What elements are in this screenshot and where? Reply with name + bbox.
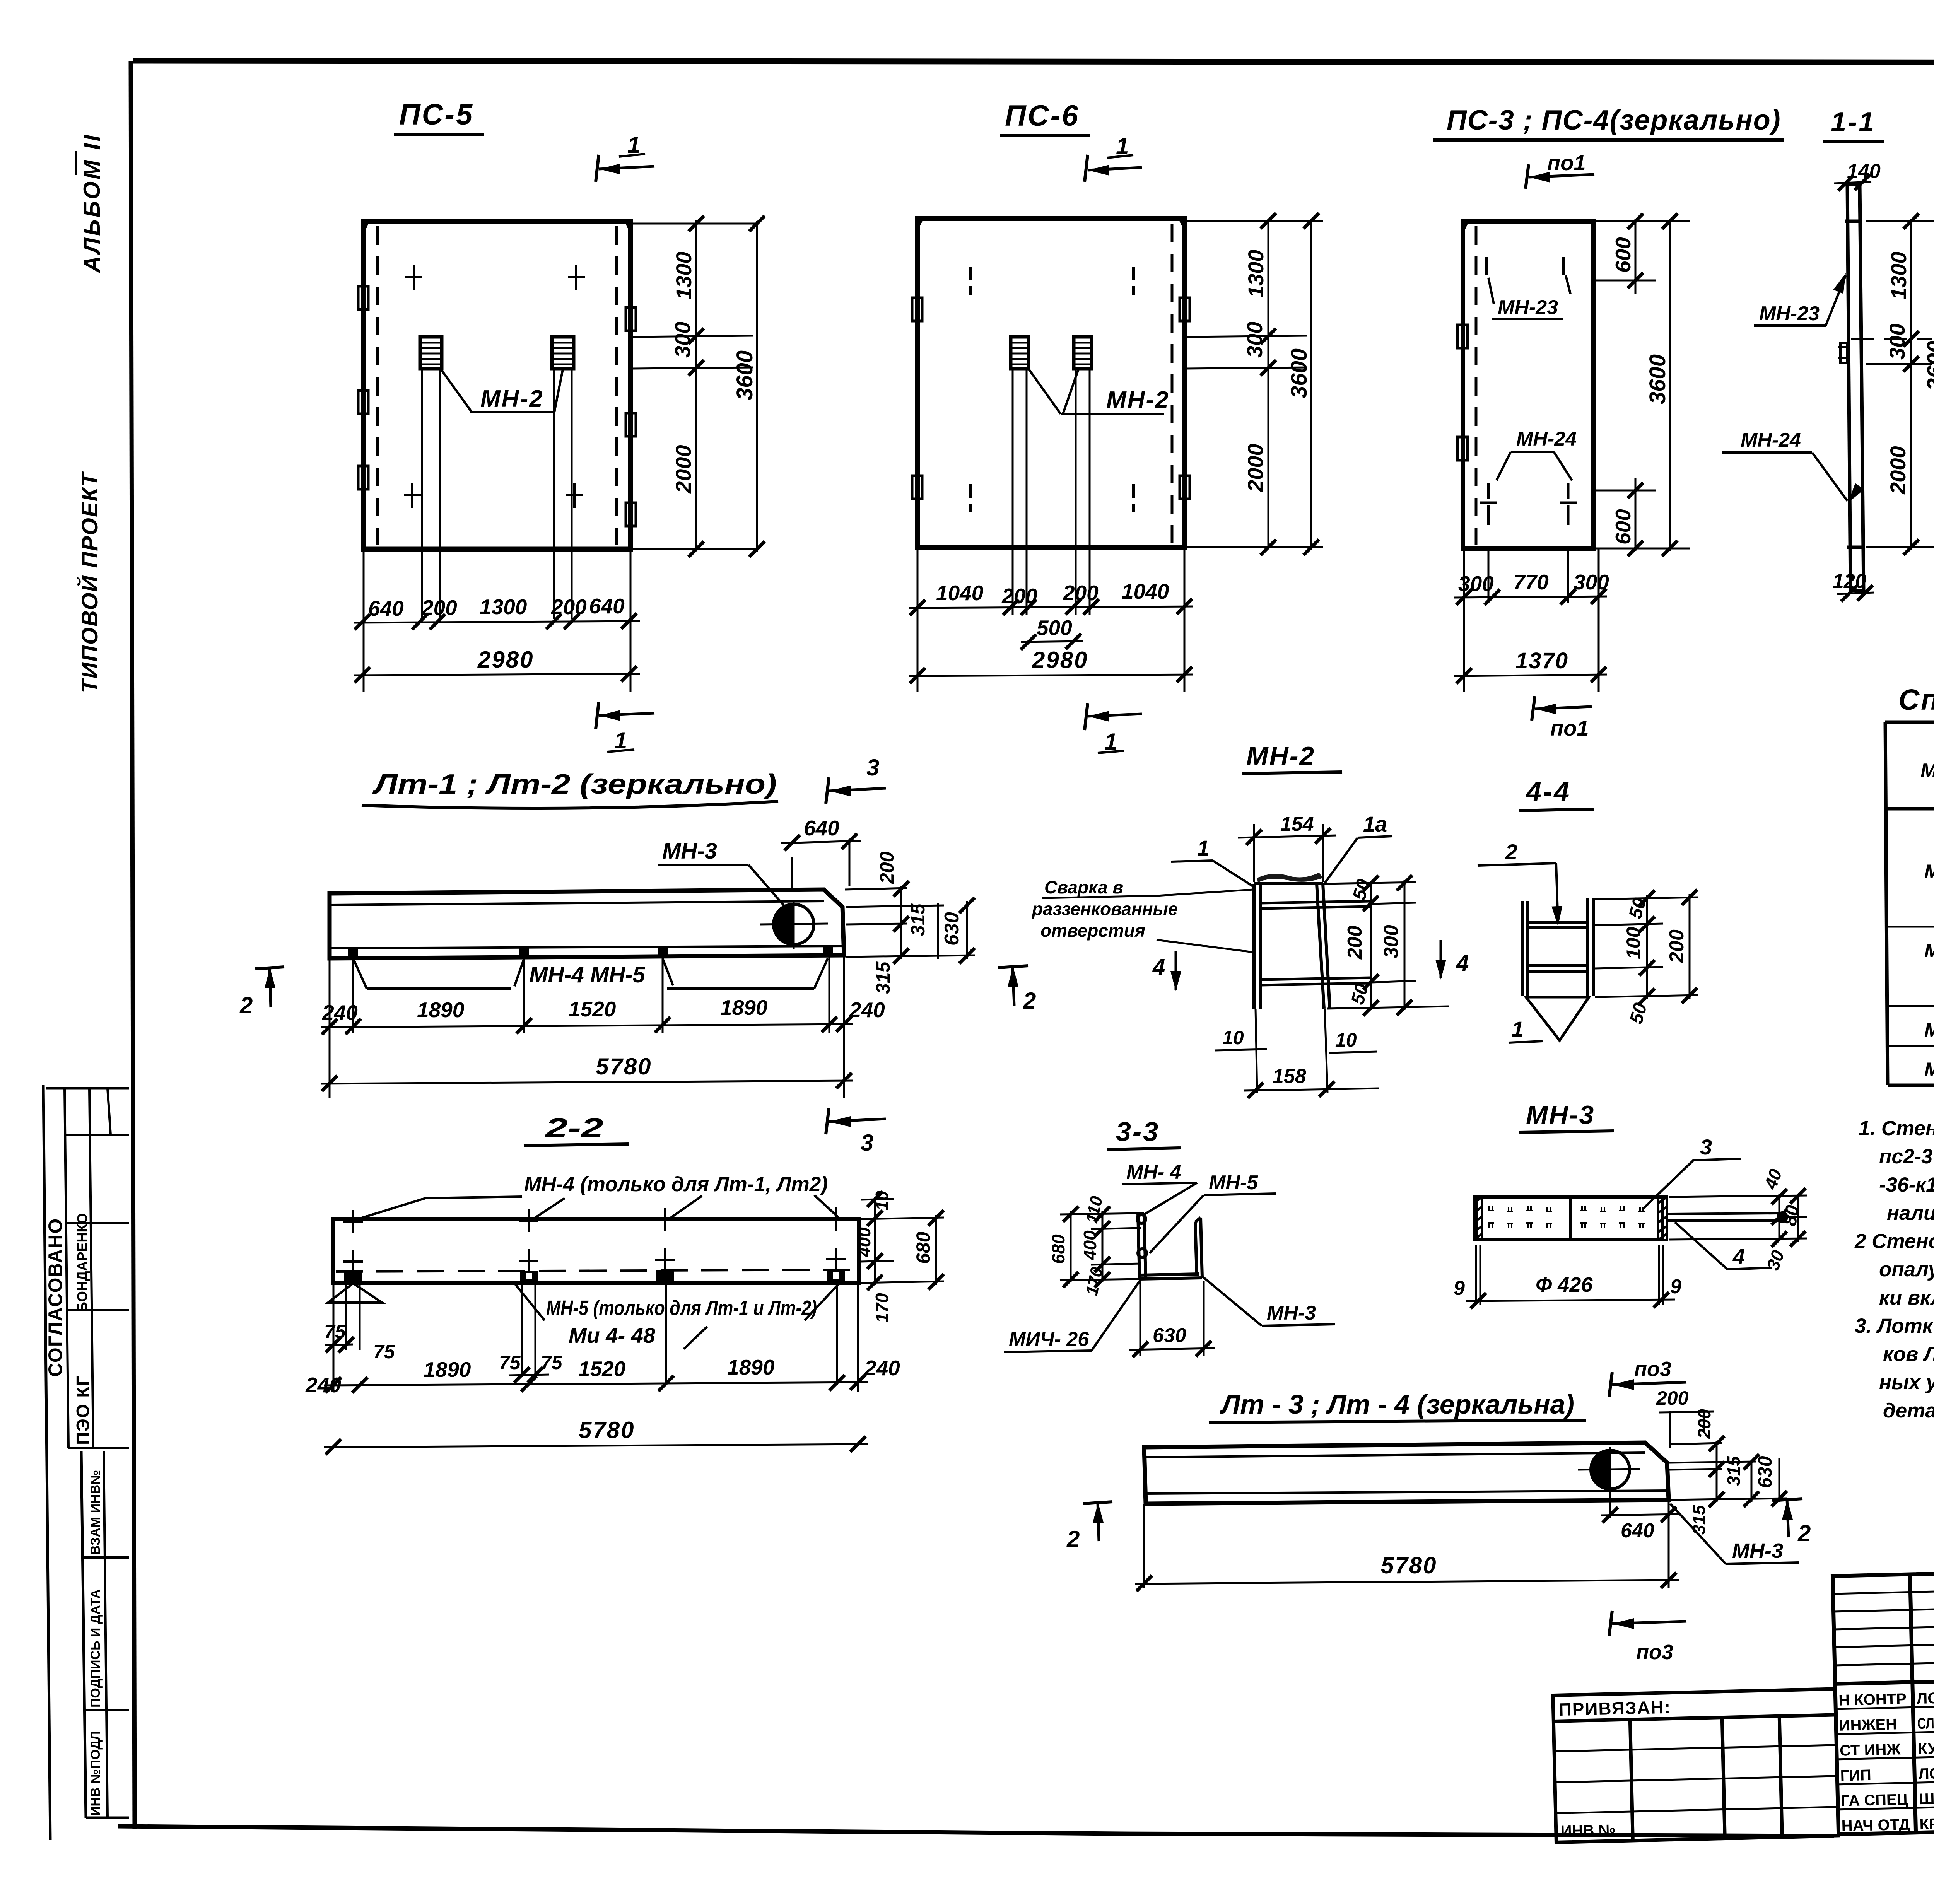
svg-text:4-4: 4-4 xyxy=(1525,777,1571,808)
part Z-profile xyxy=(1137,1213,1202,1279)
svg-text:640: 640 xyxy=(368,596,404,620)
main outer box xyxy=(1833,1557,1934,1834)
part: flanges and web xyxy=(1522,898,1594,996)
svg-text:деталей.: деталей. xyxy=(1883,1399,1934,1422)
svg-text:640: 640 xyxy=(1621,1520,1654,1542)
svg-text:240: 240 xyxy=(305,1373,341,1397)
svg-text:ИНЖЕН: ИНЖЕН xyxy=(1839,1716,1897,1734)
svg-text:по1: по1 xyxy=(1550,716,1589,740)
svg-text:Марка: Марка xyxy=(1920,760,1934,782)
svg-text:2: 2 xyxy=(1066,1526,1080,1552)
section mark 1 (top) xyxy=(1085,155,1088,182)
svg-text:600: 600 xyxy=(1611,509,1635,545)
svg-text:МН-2: МН-2 xyxy=(480,386,544,412)
svg-text:2000: 2000 xyxy=(671,445,695,494)
anchor plate MN-2 right xyxy=(552,337,574,369)
svarka text xyxy=(1031,877,1178,941)
svg-text:МН-3: МН-3 xyxy=(1732,1539,1783,1562)
svg-text:2 Стеновые панели пс-3 и пс-4: 2 Стеновые панели пс-3 и пс-4 изготавлив… xyxy=(1854,1230,1934,1253)
pin rod 4 xyxy=(1667,1212,1787,1222)
margin label ALBOM II xyxy=(76,133,105,273)
svg-text:МН-4 МН-5: МН-4 МН-5 xyxy=(529,962,645,987)
hole circle xyxy=(774,904,814,944)
svg-text:640: 640 xyxy=(589,594,625,618)
svg-text:2980: 2980 xyxy=(477,647,534,673)
MN-23 embed xyxy=(1838,343,1850,363)
svg-text:3600: 3600 xyxy=(1923,341,1934,391)
right dims 10/400/170 680 xyxy=(861,1197,944,1285)
svg-text:200: 200 xyxy=(1656,1387,1689,1409)
panel PS-3 outline xyxy=(1463,221,1594,548)
svg-text:240: 240 xyxy=(849,998,885,1022)
svg-text:3: 3 xyxy=(866,755,879,780)
margin strip upper block (soglasovano) xyxy=(43,1085,129,1840)
table2 rows xyxy=(1924,819,1934,1080)
anchor plate MN-2 left xyxy=(1011,337,1029,369)
margin strip lower block (inv/podpis) xyxy=(81,1451,129,1818)
dim 3600 xyxy=(1310,219,1312,550)
svg-text:МН-4 (только для Лт-1, Лт2): МН-4 (только для Лт-1, Лт2) xyxy=(524,1173,828,1196)
dim chain 1300/300/2000 xyxy=(1910,219,1912,550)
svg-text:75: 75 xyxy=(324,1321,346,1342)
svg-text:600: 600 xyxy=(1611,237,1635,273)
svg-text:3600: 3600 xyxy=(732,350,757,400)
svg-text:2: 2 xyxy=(1505,840,1517,864)
svg-text:300: 300 xyxy=(1380,925,1403,958)
dim 1370 xyxy=(1454,675,1607,676)
svg-text:ки вкладышей с сохранением арм: ки вкладышей с сохранением армирования п… xyxy=(1879,1286,1934,1309)
svg-text:МН-5: МН-5 xyxy=(1924,1059,1934,1080)
svg-text:240: 240 xyxy=(864,1356,900,1380)
svg-text:315: 315 xyxy=(1724,1456,1744,1486)
section mark 2 (left) xyxy=(255,967,284,969)
svg-text:МН-2: МН-2 xyxy=(1106,387,1170,413)
svg-text:300: 300 xyxy=(1574,570,1609,594)
end caps hatched xyxy=(1474,1196,1667,1240)
section mark po1 (bottom) xyxy=(1532,696,1535,721)
svg-text:МН-2: МН-2 xyxy=(1246,741,1315,771)
section mark 3 (top right) xyxy=(826,777,829,804)
anchor plate MN-2 left xyxy=(420,337,442,369)
svg-text:200: 200 xyxy=(1063,581,1099,605)
left edge notches xyxy=(358,221,636,526)
section mark 2 (right) xyxy=(998,966,1028,968)
dim 5780 xyxy=(324,1444,868,1447)
svg-text:770: 770 xyxy=(1513,570,1549,594)
svg-text:300: 300 xyxy=(1885,324,1909,360)
plus marks xyxy=(404,265,585,508)
dim chain 640/200/1300/200/640 xyxy=(354,621,640,623)
beam 2-2 outline xyxy=(333,1219,859,1283)
svg-text:200: 200 xyxy=(876,851,898,884)
svg-text:МН- 4: МН- 4 xyxy=(1126,1161,1181,1183)
dim chain 300/770/300 xyxy=(1454,596,1607,598)
svg-text:ЛОУЦКЕР: ЛОУЦКЕР xyxy=(1917,1689,1934,1707)
svg-text:170: 170 xyxy=(872,1293,892,1323)
svg-text:ПС-5: ПС-5 xyxy=(399,98,474,131)
dashed formwork lines xyxy=(376,226,379,545)
svg-text:по3: по3 xyxy=(1634,1358,1671,1381)
svg-text:200: 200 xyxy=(1344,926,1366,960)
svg-text:630: 630 xyxy=(1754,1456,1776,1488)
svg-text:1. Стеновые панели пс-5 изгота: 1. Стеновые панели пс-5 изготавливаются … xyxy=(1859,1117,1934,1140)
svg-text:1520: 1520 xyxy=(569,997,616,1021)
svg-text:ПОДПИСЬ И ДАТА: ПОДПИСЬ И ДАТА xyxy=(88,1589,103,1708)
svg-text:МН-2: МН-2 xyxy=(1924,861,1934,882)
leader lines MN-4 xyxy=(358,1195,839,1219)
dashed formwork line right xyxy=(1171,224,1174,543)
svg-text:3600: 3600 xyxy=(1645,354,1670,404)
svg-text:200: 200 xyxy=(1694,1409,1714,1439)
svg-text:МН-24: МН-24 xyxy=(1516,428,1577,450)
svg-text:158: 158 xyxy=(1273,1065,1306,1088)
svg-text:1890: 1890 xyxy=(417,998,465,1022)
svg-text:10: 10 xyxy=(1222,1027,1244,1048)
svg-text:680: 680 xyxy=(912,1231,934,1264)
svg-text:2: 2 xyxy=(239,992,253,1018)
svg-text:680: 680 xyxy=(1048,1234,1068,1264)
svg-text:315: 315 xyxy=(1689,1504,1709,1535)
right dim 600 bottom xyxy=(1596,478,1690,551)
svg-text:МН-3: МН-3 xyxy=(662,838,717,864)
svg-text:315: 315 xyxy=(907,903,929,936)
svg-text:630: 630 xyxy=(941,912,963,946)
svg-text:АЛЬБОМ II: АЛЬБОМ II xyxy=(79,133,105,273)
svg-text:Сварка в: Сварка в xyxy=(1044,877,1123,897)
right dim chain xyxy=(1187,219,1323,549)
svg-text:ных укороченной длиной и налич: ных укороченной длиной и наличием дополн… xyxy=(1879,1371,1934,1394)
svg-text:640: 640 xyxy=(804,816,839,840)
svg-text:ВЗАМ ИНВ№: ВЗАМ ИНВ№ xyxy=(88,1470,103,1555)
dim 640 (top right) xyxy=(781,839,861,890)
slab outline xyxy=(1845,184,1865,591)
svg-text:120: 120 xyxy=(1833,570,1866,593)
svg-text:3: 3 xyxy=(1700,1135,1712,1159)
svg-text:3. Лотки Лт-1 ÷ Лт-4 изготавли: 3. Лотки Лт-1 ÷ Лт-4 изготавливаются в о… xyxy=(1855,1315,1934,1337)
svg-text:2-2: 2-2 xyxy=(544,1113,603,1143)
section mark po3 (bottom) xyxy=(1609,1611,1612,1636)
svg-text:1890: 1890 xyxy=(727,1355,775,1379)
svg-text:наличием дополнительных заклад: наличием дополнительных закладных детале… xyxy=(1887,1202,1934,1224)
dim chain 240/1890/1520/1890/240 xyxy=(321,1024,853,1027)
svg-text:2: 2 xyxy=(1023,988,1036,1014)
svg-text:МН-23: МН-23 xyxy=(1498,296,1558,319)
right chamfer dims 200/315/315/630 xyxy=(1669,1441,1787,1502)
dims 9 9 F426 xyxy=(1466,1245,1675,1305)
svg-text:СЛОЖЕНЯКИНА: СЛОЖЕНЯКИНА xyxy=(1917,1713,1934,1732)
signature rows xyxy=(1836,1703,1934,1810)
privyazan block xyxy=(1553,1689,1838,1842)
extension lines for chain xyxy=(330,956,844,1098)
section mark po1 (top) xyxy=(1526,164,1529,189)
beam LT-3 outline xyxy=(1144,1443,1669,1504)
bottom embed tabs xyxy=(348,946,833,958)
svg-text:ПЭО КГ: ПЭО КГ xyxy=(73,1375,93,1445)
svg-text:1040: 1040 xyxy=(936,581,984,605)
svg-text:300: 300 xyxy=(1458,572,1494,596)
MN-2 plates xyxy=(1254,884,1330,1009)
svg-text:МИЧ- 26: МИЧ- 26 xyxy=(1009,1328,1089,1351)
dashed marks below MN-24 xyxy=(1480,483,1577,525)
left 75 dims xyxy=(333,1281,858,1392)
right side dims 200/315/315/630 xyxy=(845,886,975,959)
svg-text:80: 80 xyxy=(1780,1204,1804,1228)
svg-text:3600: 3600 xyxy=(1286,348,1312,398)
extension lines xyxy=(1851,221,1934,547)
svg-text:154: 154 xyxy=(1280,813,1314,835)
svg-text:3-3: 3-3 xyxy=(1116,1117,1160,1147)
svg-text:100: 100 xyxy=(1623,927,1644,959)
bottom extension lines xyxy=(363,549,365,692)
margin label TIPOVOY PROEKT xyxy=(77,471,103,693)
svg-text:ШАПИРО: ШАПИРО xyxy=(1919,1789,1934,1808)
svg-text:50: 50 xyxy=(1626,1001,1651,1026)
svg-text:1: 1 xyxy=(1197,836,1209,860)
weld triangle xyxy=(1526,997,1589,1040)
svg-text:Лт - 3 ; Лт - 4 (зеркальна): Лт - 3 ; Лт - 4 (зеркальна) xyxy=(1220,1389,1574,1419)
section mark 1 (top) xyxy=(596,155,599,182)
svg-text:ТИПОВОЙ ПРОЕКТ: ТИПОВОЙ ПРОЕКТ xyxy=(77,471,103,693)
svg-text:400: 400 xyxy=(1080,1230,1100,1260)
svg-text:МН-4: МН-4 xyxy=(1924,1019,1934,1041)
svg-text:9: 9 xyxy=(1454,1277,1465,1300)
dims 50/200/50 and 300 xyxy=(1324,880,1449,1010)
svg-text:1300: 1300 xyxy=(480,595,527,619)
svg-text:5780: 5780 xyxy=(1381,1552,1437,1578)
dim 3600 xyxy=(756,221,758,552)
revision rows top-left xyxy=(1833,1587,1934,1665)
section mark 1 (bottom) xyxy=(1085,703,1088,730)
svg-text:1300: 1300 xyxy=(1244,249,1268,298)
svg-text:МН-3: МН-3 xyxy=(1267,1302,1316,1324)
svg-text:3: 3 xyxy=(861,1130,873,1156)
dim 630 xyxy=(1129,1281,1215,1356)
svg-text:по3: по3 xyxy=(1636,1641,1673,1664)
dims 680 110 400 170 xyxy=(1060,1211,1141,1282)
svg-text:75: 75 xyxy=(541,1352,563,1373)
svg-text:-36-к1 по серии 3.900-3 вып.3: -36-к1 по серии 3.900-3 вып.3 и отличают… xyxy=(1879,1173,1934,1196)
leader triangle left xyxy=(328,1283,382,1303)
dim chain 1040/200/200/1040 xyxy=(909,606,1193,608)
svg-text:630: 630 xyxy=(1153,1324,1186,1347)
section mark 1 (bottom) xyxy=(596,702,599,729)
svg-text:170: 170 xyxy=(1082,1265,1107,1298)
svg-text:300: 300 xyxy=(1242,322,1267,358)
corner dash marks xyxy=(970,267,1134,512)
anchor extension lines down xyxy=(422,369,572,619)
dim 2980 xyxy=(354,674,640,675)
beam LT-1 outline xyxy=(330,890,844,958)
svg-text:30: 30 xyxy=(1763,1247,1789,1273)
svg-text:БОНДАРЕНКО: БОНДАРЕНКО xyxy=(74,1213,90,1312)
svg-text:10: 10 xyxy=(872,1190,892,1211)
dim 2980 xyxy=(909,675,1193,676)
svg-text:5780: 5780 xyxy=(596,1054,652,1079)
svg-text:МН-23: МН-23 xyxy=(1759,302,1820,325)
svg-text:ПС-6: ПС-6 xyxy=(1005,99,1080,132)
signature roles xyxy=(1838,1688,1934,1834)
panel PS-6 outline xyxy=(917,219,1184,547)
weld smudge xyxy=(1257,873,1323,883)
svg-text:200: 200 xyxy=(1001,584,1037,608)
svg-text:300: 300 xyxy=(670,322,695,358)
svg-text:ПРИВЯЗАН:: ПРИВЯЗАН: xyxy=(1558,1697,1671,1720)
svg-text:пс2-36-к11, а стеновые панели: пс2-36-к11, а стеновые панели пс-6 · в о… xyxy=(1879,1145,1934,1168)
svg-text:МН-24: МН-24 xyxy=(1741,429,1801,451)
svg-text:4: 4 xyxy=(1152,955,1165,980)
svg-text:Ми 4- 48: Ми 4- 48 xyxy=(569,1323,656,1347)
svg-text:5780: 5780 xyxy=(579,1417,635,1443)
svg-text:раззенкованные: раззенкованные xyxy=(1031,899,1178,919)
right dim chain 1300/300/2000 xyxy=(633,220,758,551)
svg-text:400: 400 xyxy=(854,1227,874,1257)
svg-text:МН-3: МН-3 xyxy=(1924,940,1934,961)
section mark 2 (left) xyxy=(1083,1502,1112,1504)
svg-text:КУРГАНОВА: КУРГАНОВА xyxy=(1918,1738,1934,1757)
svg-text:ПС-3 ; ПС-4(зеркально): ПС-3 ; ПС-4(зеркально) xyxy=(1447,105,1781,136)
svg-text:2: 2 xyxy=(1797,1520,1811,1546)
svg-text:отверстия: отверстия xyxy=(1040,920,1145,941)
dim 640 xyxy=(1609,1494,1611,1518)
svg-text:200: 200 xyxy=(421,596,457,620)
hole circle xyxy=(1591,1450,1630,1489)
section mark 2 (right) xyxy=(1772,1499,1802,1501)
svg-text:1300: 1300 xyxy=(1886,251,1911,300)
svg-text:ИНВ №ПОДЛ: ИНВ №ПОДЛ xyxy=(88,1731,103,1816)
anchor extension lines down xyxy=(1013,369,1090,615)
svg-text:МН-5: МН-5 xyxy=(1209,1171,1258,1194)
dim 3600 xyxy=(1669,219,1671,551)
svg-text:200: 200 xyxy=(551,595,587,619)
bottom extension lines xyxy=(1464,548,1599,692)
svg-text:200: 200 xyxy=(1666,929,1688,963)
svg-text:Спецификация стали на 1штуку к: Спецификация стали на 1штуку каждой марк… xyxy=(1898,683,1934,716)
svg-text:9: 9 xyxy=(1670,1276,1681,1298)
cross bars xyxy=(1260,901,1370,985)
svg-text:75: 75 xyxy=(373,1341,395,1363)
svg-text:10: 10 xyxy=(1335,1029,1357,1051)
svg-text:по1: по1 xyxy=(1547,150,1586,175)
svg-text:40: 40 xyxy=(1760,1166,1786,1192)
dim chain 240/1890/1520/1890/240 xyxy=(324,1382,868,1385)
svg-text:2000: 2000 xyxy=(1886,446,1910,495)
svg-text:240: 240 xyxy=(322,1001,358,1025)
svg-text:Ф 426: Ф 426 xyxy=(1536,1273,1593,1296)
dims 40/30/80 xyxy=(1669,1194,1807,1242)
svg-text:1а: 1а xyxy=(1363,812,1387,836)
svg-text:ГА СПЕЦ: ГА СПЕЦ xyxy=(1841,1791,1908,1810)
svg-text:ИНВ №: ИНВ № xyxy=(1560,1822,1616,1840)
MN-23 dashes xyxy=(1486,257,1564,275)
svg-text:1890: 1890 xyxy=(424,1358,471,1381)
pipe body xyxy=(1476,1197,1662,1240)
svg-text:ГИП: ГИП xyxy=(1840,1767,1871,1784)
dim 5780 xyxy=(1135,1500,1679,1588)
right dim 600 top xyxy=(1596,219,1690,294)
svg-text:4: 4 xyxy=(1456,951,1469,976)
svg-text:1300: 1300 xyxy=(671,251,696,300)
svg-text:СОГЛАСОВАНО: СОГЛАСОВАНО xyxy=(44,1218,66,1377)
anchor plate MN-2 right xyxy=(1074,337,1092,369)
svg-text:1370: 1370 xyxy=(1515,648,1568,673)
svg-text:МН-5 (только для Лт-1 и Лт-2): МН-5 (только для Лт-1 и Лт-2) xyxy=(546,1296,817,1320)
section mark po3 (top) xyxy=(1609,1372,1612,1397)
dim 500 xyxy=(1021,641,1083,642)
svg-text:Лт-1 ; Лт-2 (зеркально): Лт-1 ; Лт-2 (зеркально) xyxy=(372,769,777,800)
svg-text:ков Лт-1-6-4,5 по серии 3.900-: ков Лт-1-6-4,5 по серии 3.900-3 вып.8 и … xyxy=(1883,1343,1934,1366)
svg-text:315: 315 xyxy=(872,961,894,994)
rebar tick symbols xyxy=(1488,1206,1645,1228)
svg-text:1-1: 1-1 xyxy=(1831,107,1876,138)
svg-text:СТ ИНЖ: СТ ИНЖ xyxy=(1840,1741,1901,1759)
svg-text:2980: 2980 xyxy=(1032,647,1088,673)
svg-text:1520: 1520 xyxy=(578,1357,626,1381)
svg-text:ЛОУЦКЕР: ЛОУЦКЕР xyxy=(1918,1764,1934,1783)
svg-text:КРАСАВИН: КРАСАВИН xyxy=(1919,1814,1934,1833)
svg-text:2000: 2000 xyxy=(1243,444,1268,492)
dim 5780 xyxy=(321,1081,853,1084)
bottom extension lines xyxy=(917,547,919,692)
dims 50/100/50 200 xyxy=(1595,894,1698,999)
svg-text:1: 1 xyxy=(1512,1017,1524,1041)
panel PS-5 outline xyxy=(364,221,630,549)
table2 grid xyxy=(1885,722,1934,1085)
section mark 3 (bottom) xyxy=(826,1108,829,1134)
svg-text:МН-3: МН-3 xyxy=(1526,1100,1595,1130)
svg-text:500: 500 xyxy=(1037,616,1072,640)
svg-text:НАЧ ОТД: НАЧ ОТД xyxy=(1841,1816,1910,1835)
svg-text:4: 4 xyxy=(1732,1244,1745,1269)
svg-text:1890: 1890 xyxy=(720,996,768,1019)
svg-text:опалубочной форме стеновых пан: опалубочной форме стеновых панелей пс2-3… xyxy=(1879,1258,1934,1281)
svg-text:75: 75 xyxy=(499,1352,521,1373)
top plus marks and bottom squares xyxy=(343,1207,846,1273)
svg-text:Н КОНТР: Н КОНТР xyxy=(1838,1691,1907,1709)
svg-text:1040: 1040 xyxy=(1122,579,1169,603)
